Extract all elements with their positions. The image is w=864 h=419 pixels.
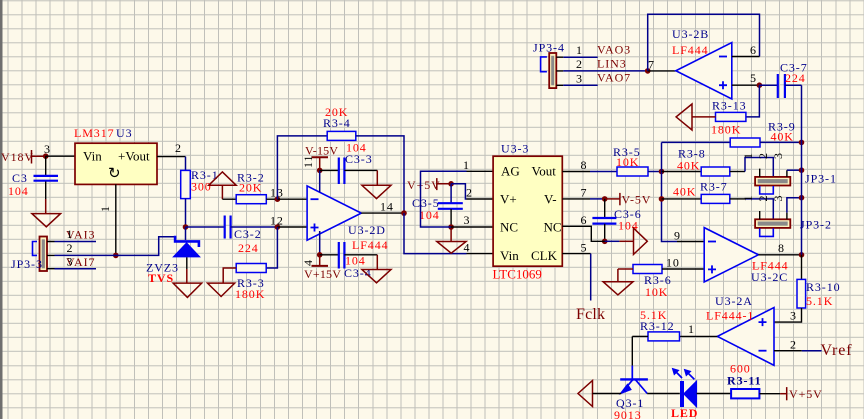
svg-text:Vin: Vin <box>83 149 102 164</box>
wire pin9 into op-amp C <box>674 229 704 243</box>
svg-text:10: 10 <box>666 256 680 270</box>
svg-text:U3-2B: U3-2B <box>672 27 709 41</box>
junction JP3-2 on bus <box>799 195 805 201</box>
arrow port right at C3-6 node <box>605 228 648 254</box>
svg-text:V+5V: V+5V <box>789 387 823 401</box>
svg-text:C3-2: C3-2 <box>234 227 262 241</box>
wire pin5 <box>732 71 760 85</box>
wire AG loop pin1 to pin3 node <box>421 171 467 227</box>
svg-text:Fclk: Fclk <box>576 306 605 323</box>
resistor R3-1 <box>181 157 219 227</box>
svg-text:JP3-4: JP3-4 <box>533 41 565 55</box>
connector JP3-2 <box>755 218 832 237</box>
wire net LIN3 to op-amp B <box>563 57 647 72</box>
wire signal node to C3-2 <box>186 226 225 228</box>
svg-text:1: 1 <box>576 43 583 57</box>
wire pin2 to Vref <box>774 338 822 352</box>
resistor R3-5 <box>613 145 662 176</box>
ground below TVS <box>173 269 202 297</box>
junction op-amp B output node <box>645 58 655 74</box>
svg-text:NC: NC <box>500 219 518 234</box>
svg-text:LF444: LF444 <box>672 43 709 57</box>
wire LM317 pin1 ADJ down <box>98 184 116 255</box>
svg-text:2: 2 <box>576 57 583 71</box>
svg-text:5: 5 <box>750 71 757 85</box>
transistor Q3-1 <box>614 366 648 419</box>
svg-text:1: 1 <box>741 152 755 159</box>
svg-text:LTC1069: LTC1069 <box>493 267 542 282</box>
svg-text:180K: 180K <box>235 287 265 301</box>
wire op-amp A output pin1 <box>680 322 718 336</box>
junction TVS node <box>183 224 189 230</box>
svg-text:7: 7 <box>581 186 588 200</box>
diode LED <box>671 368 698 419</box>
wire pin12 into op-amp <box>277 226 307 228</box>
svg-text:1: 1 <box>741 195 755 202</box>
resistor R3-7 <box>662 180 746 204</box>
svg-text:AG: AG <box>501 164 520 179</box>
op-amp U3-2A (mirrored) <box>706 294 774 365</box>
wire pin13 into op-amp <box>277 198 307 200</box>
wire collector to LED <box>647 393 680 395</box>
svg-text:U3-3: U3-3 <box>501 142 529 156</box>
svg-text:R3-7: R3-7 <box>700 180 728 194</box>
ground below C3 <box>32 199 61 227</box>
svg-text:20K: 20K <box>239 181 262 195</box>
svg-text:U3-2D: U3-2D <box>348 223 386 237</box>
svg-text:JP3-1: JP3-1 <box>805 172 837 186</box>
svg-text:40K: 40K <box>771 130 794 144</box>
svg-text:JP3-3: JP3-3 <box>11 257 43 271</box>
wire V+5V to U3-3 pin2 <box>451 184 466 199</box>
junction node A / R3-5 R3-8 <box>659 169 665 175</box>
wire node A to R3-9 <box>662 141 731 143</box>
wire R3-8 to JP3-1 pin2 <box>745 158 773 177</box>
svg-text:3: 3 <box>67 255 74 269</box>
arrow port left at R3-13 <box>676 104 692 130</box>
wire JP3-2 pin3 to bus <box>787 198 802 213</box>
svg-text:R3-12: R3-12 <box>640 319 675 333</box>
svg-text:Vout: Vout <box>532 164 557 179</box>
resistor R3-3 <box>223 264 266 302</box>
ground at C3-5 node <box>437 229 466 253</box>
svg-text:6: 6 <box>750 43 757 57</box>
svg-text:R3-10: R3-10 <box>806 280 841 294</box>
resistor R3-13 <box>692 85 759 136</box>
TVS diode ZVZ3 <box>146 227 200 285</box>
junction pin5 node <box>757 82 763 88</box>
junction ADJ node <box>113 253 119 259</box>
svg-text:U3-2C: U3-2C <box>751 270 788 284</box>
wire JP3-1 pin3 to bus <box>787 169 802 171</box>
connector JP3-1 <box>755 172 837 195</box>
power port V-15V <box>301 144 338 171</box>
svg-text:11: 11 <box>301 155 315 168</box>
svg-text:3: 3 <box>771 152 785 159</box>
capacitor C3-5 <box>412 184 463 227</box>
junction output node <box>401 210 407 216</box>
svg-text:V-5V: V-5V <box>622 193 652 207</box>
svg-text:NC: NC <box>544 219 562 234</box>
svg-text:3: 3 <box>44 142 51 156</box>
svg-text:14: 14 <box>380 200 394 214</box>
svg-text:CLK: CLK <box>531 248 558 263</box>
JP3-3 pin stubs <box>47 242 55 269</box>
resistor R3-9 <box>730 120 801 148</box>
junction pin12 node <box>270 214 284 230</box>
filter U3-3 LTC1069 body <box>493 142 563 282</box>
svg-text:40K: 40K <box>677 159 700 173</box>
svg-text:5: 5 <box>581 241 588 255</box>
capacitor C3-7 <box>759 61 807 99</box>
op-amp U3-2B (mirrored) <box>672 27 732 99</box>
wire pin6 <box>732 43 760 57</box>
svg-text:9013: 9013 <box>614 408 642 419</box>
svg-text:5.1K: 5.1K <box>806 294 833 308</box>
regulator U3 LM317 body <box>75 143 157 184</box>
svg-text:C3: C3 <box>12 171 28 185</box>
junction C3-5 / AG / pin3 <box>448 224 454 230</box>
wire net VAO3 <box>563 43 631 58</box>
svg-text:V+: V+ <box>500 191 517 206</box>
svg-text:U3-2A: U3-2A <box>715 294 753 308</box>
svg-text:10K: 10K <box>645 285 668 299</box>
wire R3-12 down to Q3-1 base <box>631 336 633 365</box>
wire op-amp C output pin8 <box>758 241 801 255</box>
resistor R3-8 <box>662 147 746 177</box>
capacitor C3 <box>8 156 58 199</box>
resistor R3-10 <box>774 255 841 323</box>
svg-text:224: 224 <box>238 241 259 255</box>
svg-text:2: 2 <box>756 152 770 159</box>
capacitor C3-3 <box>320 141 378 185</box>
capacitor C3-2 <box>225 216 262 256</box>
wire LED to R3-11 <box>697 393 732 395</box>
svg-text:R3-4: R3-4 <box>323 116 351 130</box>
svg-text:7: 7 <box>648 58 655 72</box>
svg-text:1: 1 <box>67 227 74 241</box>
svg-text:2: 2 <box>756 195 770 202</box>
capacitor C3-4 <box>320 242 378 280</box>
svg-text:C3-4: C3-4 <box>344 266 372 280</box>
bus wire right side <box>801 85 803 255</box>
junction V+5V / C3-5 <box>448 181 454 187</box>
node A vertical wire <box>662 142 678 241</box>
wire JP3-3 pin2 to signal node <box>55 237 176 256</box>
junction output C on bus <box>799 252 805 258</box>
svg-text:8: 8 <box>778 241 785 255</box>
svg-text:6: 6 <box>581 213 588 227</box>
svg-text:9: 9 <box>674 229 681 243</box>
pin numbers U3-3 left <box>463 158 473 255</box>
resistor R3-2 <box>236 171 277 204</box>
svg-text:VAO3: VAO3 <box>597 43 631 57</box>
JP3-2 pin stubs and rotated pin numbers <box>741 195 787 220</box>
svg-text:R3-13: R3-13 <box>712 99 747 113</box>
svg-text:2: 2 <box>67 241 74 255</box>
svg-text:1: 1 <box>688 322 695 336</box>
junction R3-9 on bus <box>799 140 805 146</box>
capacitor C3-6 <box>592 199 641 241</box>
connector JP3-4 <box>533 41 565 89</box>
power port V+15V <box>301 231 341 281</box>
svg-text:LF444: LF444 <box>352 238 389 252</box>
svg-text:104: 104 <box>419 208 440 222</box>
JP3-4 pin stubs <box>556 57 563 85</box>
ground at C3-3 <box>362 170 391 198</box>
junction JP3-1 on bus <box>799 167 805 173</box>
wire net VAI3 <box>55 227 97 242</box>
svg-text:TVS: TVS <box>148 271 174 285</box>
node 3 junction <box>43 142 51 159</box>
power port V+5V (U3-3 supply) <box>407 178 451 192</box>
op-amp U3-2D <box>307 186 388 252</box>
svg-text:2: 2 <box>466 186 473 200</box>
wire V18V to LM317 <box>46 155 75 157</box>
svg-text:12: 12 <box>270 214 284 228</box>
svg-text:4: 4 <box>301 259 315 266</box>
wire pin5 CLK down to Fclk <box>562 241 590 301</box>
svg-text:LM317: LM317 <box>74 126 115 140</box>
junction R3-7 tap <box>659 196 665 202</box>
svg-text:V-: V- <box>544 191 557 206</box>
op-amp U3-2C <box>704 228 788 284</box>
svg-text:V+15V: V+15V <box>304 267 341 281</box>
svg-text:U3: U3 <box>116 126 132 140</box>
svg-text:104: 104 <box>8 184 29 198</box>
wire pin2 LM317 output <box>157 141 186 157</box>
power port V18V <box>1 150 46 164</box>
svg-text:V+5V: V+5V <box>407 178 441 192</box>
svg-text:2: 2 <box>175 141 182 155</box>
svg-text:Vin: Vin <box>500 248 519 263</box>
feedback wire to R3-4 <box>277 136 327 199</box>
resistor R3-6 <box>618 256 704 300</box>
power port V+5V at R3-11 <box>780 387 823 401</box>
wire C3-2 to pin12 node <box>231 226 278 228</box>
svg-text:3: 3 <box>771 195 785 202</box>
wire R3-7 to JP3-2 pin2 <box>745 199 773 219</box>
svg-text:+Vout: +Vout <box>118 149 150 164</box>
wire V-15V to op-amp pin11 <box>319 170 321 192</box>
connector JP3-3 <box>11 237 47 272</box>
junction V+15V / C3-4 <box>317 252 323 258</box>
wire pin12 down to R3-3 <box>266 227 277 268</box>
wire junction to op-amp B apex <box>648 70 676 72</box>
wire pin7 V- <box>562 186 604 200</box>
svg-text:300: 300 <box>191 180 212 194</box>
junction V-15V / C3-3 <box>317 168 323 174</box>
svg-text:224: 224 <box>785 71 806 85</box>
JP3-1 pin stubs and rotated pin numbers <box>741 152 787 177</box>
resistor R3-4 <box>323 105 356 140</box>
svg-text:1: 1 <box>463 158 470 172</box>
svg-text:3: 3 <box>790 309 797 323</box>
svg-text:Vref: Vref <box>821 342 853 359</box>
wire R3-4 to output node <box>356 136 404 213</box>
sheet border left edge <box>0 0 3 419</box>
svg-text:3: 3 <box>464 213 471 227</box>
wire op-amp D output pin14 <box>361 200 404 214</box>
label LM317 U3 <box>74 126 132 140</box>
svg-text:3: 3 <box>576 72 583 86</box>
resistor R3-12 <box>632 308 679 341</box>
wire pin3 stub <box>451 226 493 228</box>
svg-text:VAO7: VAO7 <box>597 71 631 85</box>
junction pin13 node <box>270 186 284 203</box>
wire net VAO7 <box>563 71 631 86</box>
svg-text:LF444-1: LF444-1 <box>706 309 754 323</box>
wire pin8 Vout to R3-5 <box>562 158 617 172</box>
power port V-5V <box>605 193 652 207</box>
svg-text:LED: LED <box>671 406 698 419</box>
wire net VAI7 <box>55 255 97 270</box>
svg-text:2: 2 <box>790 338 797 352</box>
junction C3-6 bottom <box>602 239 608 245</box>
svg-text:R3-11: R3-11 <box>727 374 762 388</box>
ground below R3-6 <box>603 269 633 295</box>
svg-text:4: 4 <box>464 241 471 255</box>
ground at C3-4 <box>362 255 391 283</box>
svg-text:↻: ↻ <box>108 166 121 182</box>
wire output down to U3-3 Vin <box>404 213 467 254</box>
svg-text:C3-3: C3-3 <box>345 152 373 166</box>
junction pin7 node <box>602 196 608 202</box>
svg-text:40K: 40K <box>673 185 696 199</box>
arrow port left at Q3-1 emitter <box>578 381 621 407</box>
svg-text:10K: 10K <box>616 155 639 169</box>
svg-text:8: 8 <box>581 158 588 172</box>
svg-text:JP3-2: JP3-2 <box>800 218 832 232</box>
svg-text:LIN3: LIN3 <box>597 57 627 71</box>
ground below R3-3 <box>208 283 235 296</box>
feedback wire op-amp B <box>648 14 760 71</box>
resistor R3-11 <box>727 362 780 399</box>
svg-text:1: 1 <box>98 205 112 212</box>
power port up-arrow at R3-2 <box>209 172 237 199</box>
svg-text:180K: 180K <box>711 123 741 137</box>
wire pin6 NC <box>562 213 604 241</box>
svg-text:V18V: V18V <box>1 150 34 164</box>
